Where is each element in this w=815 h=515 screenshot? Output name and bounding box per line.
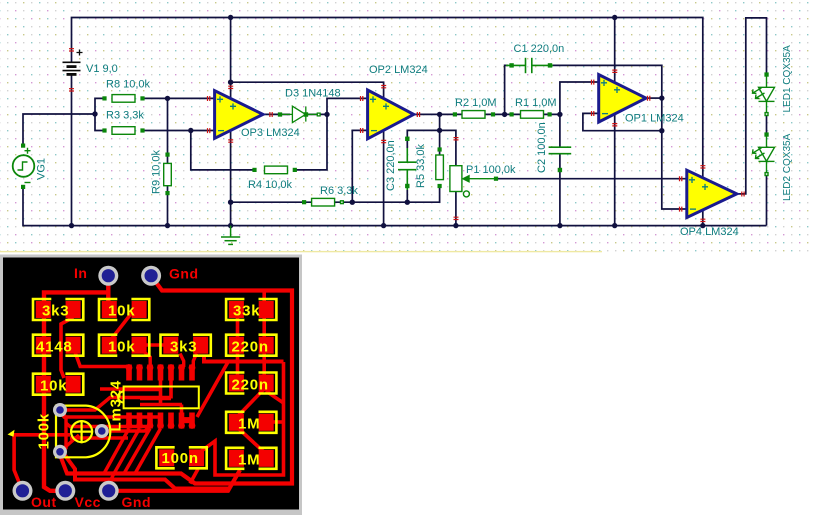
pot via 2 [95,424,109,438]
trace H bridge diagonal to mid rail [197,362,228,417]
junction OP4 V- rail [700,223,705,228]
trace mid rail y362 [204,356,284,362]
source VG1 [13,144,35,188]
wire C1 left riser [505,65,508,114]
svg-text:R9 10,0k: R9 10,0k [151,149,163,194]
trace left column trunk [44,310,65,491]
trace pot via1 to IC [60,398,171,411]
junction diode output node [324,112,329,117]
trace 220n2 right to 1M1 left diagonal [238,388,265,416]
wire OP2 V- to rail [383,130,385,226]
resistor footprint 3k3 [33,299,83,320]
wire OP1 minus feedback loop [583,113,662,130]
junction R1 R2 C1 [502,112,507,117]
svg-text:+: + [601,76,608,90]
P1 pin marks [454,138,459,220]
junction input node [92,111,97,116]
wire OP1 output [646,97,662,99]
svg-text:3k3: 3k3 [170,339,197,356]
trace 100n right to 1M2 area diagonal [190,469,198,484]
wire top supply rail [72,18,703,181]
junction OP2 output [437,112,442,117]
resistor footprint 10k top [99,299,149,320]
wire node to R8 [95,98,105,114]
op-amp OP4 [687,170,737,217]
IC LM324 horizontal weave [125,380,183,418]
wire node to R3 [95,114,105,131]
diode D3 1N4148 [278,106,320,122]
capacitor C3 [398,137,416,190]
svg-text:OP1 LM324: OP1 LM324 [625,113,684,125]
svg-text:−: − [218,124,225,138]
svg-text:10k: 10k [40,378,67,395]
trace 33k to 220n right link [262,312,266,340]
trace 220n1 to 220n2 right link [262,350,266,378]
trace pot row y438 [70,436,128,439]
wire OP2 output to R2 [414,113,463,115]
via Vcc [55,481,75,501]
trace via1 to via3 link [62,412,66,453]
via Out [13,481,33,501]
junction OP2 V- rail [381,223,386,228]
svg-text:R3 3,3k: R3 3,3k [106,110,144,122]
wire LED2 cathode to ground rail [766,175,768,226]
trace 3k3 mid left to IC pad6 [180,354,184,368]
trace 220n2 right pad to ring diagonal [266,391,284,403]
resistor footprint 33k [226,299,276,320]
trace crosshair to via3 [63,435,79,449]
trace 10k mid right to IC pad3 [143,351,150,367]
resistor R4 [253,166,296,174]
PCB frame [0,255,302,515]
resistor footprint 1M bottom [226,448,276,469]
trace bottom ground double line [60,455,181,474]
svg-text:10k: 10k [108,303,135,320]
ground [221,226,240,245]
svg-text:−: − [690,202,697,216]
junction C3 bottom [405,200,410,205]
trace In to 3k3 left pad [44,292,108,304]
svg-text:+: + [217,93,224,107]
svg-text:Out: Out [31,494,57,510]
wire OP3 output to diode [263,113,290,115]
trace 10k1 right to 10k2 left diagonal [106,310,134,346]
trace 1M1 left to 1M2 right diagonal [238,428,265,453]
op-amp OP3 [215,91,263,139]
trace IC pad diagonal 2 [109,429,140,485]
wire P1 bottom to rail [455,192,457,226]
trace 33k right stub [262,291,266,307]
svg-text:3k3: 3k3 [42,303,69,320]
wire R1 right to OP1 node [544,113,560,115]
trace bottom second line [64,454,230,489]
IC H bridge [182,417,193,423]
trace 3k3 mid right to IC pad7 [193,354,196,368]
svg-text:1M: 1M [238,452,260,469]
wire diode to junction and OP2 plus [305,98,368,114]
trace 4148 right diagonal to IC [75,352,130,370]
svg-text:100k: 100k [36,413,53,450]
svg-text:C1 220,0n: C1 220,0n [514,43,565,55]
svg-text:33k: 33k [233,303,260,320]
OP1 pin marks [592,70,650,126]
resistor footprint 3k3 mid [161,335,211,356]
svg-text:Vcc: Vcc [75,494,101,510]
wire C1 right to OP1 output column [552,65,687,209]
via Gnd top [141,266,161,286]
wire C2 top lead [559,114,561,147]
resistor R1 [510,111,551,119]
svg-text:4148: 4148 [36,339,73,356]
capacitor C1 [506,58,553,73]
junction R1 OP1 C2 [557,112,562,117]
junction R9 bottom [165,223,170,228]
trace IC row y389 [100,387,162,391]
resistor footprint 10k bottom [33,374,83,395]
trace IC pad diagonals to bottom [104,429,129,474]
svg-text:R6 3,3k: R6 3,3k [320,185,358,197]
svg-text:220n: 220n [232,339,269,356]
junction OP1 V- rail [612,223,617,228]
wire R3 to OP3 minus input [143,130,215,132]
svg-text:+: + [370,93,377,107]
svg-text:−: − [602,107,609,121]
trace 220n1 to 220n2 left link [236,350,240,378]
trace Gnd via to top rail [67,276,292,484]
resistor R3 [103,127,144,135]
OP4 pin marks [680,166,745,222]
junction OP1 output [659,95,664,100]
junction OP1 feedback [659,128,664,133]
resistor footprint 1M top [226,412,276,433]
svg-text:VG1: VG1 [36,158,48,180]
svg-text:Gnd: Gnd [169,266,199,282]
schematic background grid [0,0,815,257]
LED LED2 [753,133,775,175]
wire R9 top [167,98,169,163]
junction P1 bottom rail [453,223,458,228]
capacitor footprint 100n [156,447,206,468]
wire OP1 plus input riser [560,82,599,114]
junction OP3 V+ rail [228,15,233,20]
wire OP1 V- [614,114,616,226]
potentiometer footprint P1 [56,406,110,458]
wire battery bottom to ground rail [71,73,73,226]
junction OP3 V- rail [228,223,233,228]
junction R6 ground tap [228,200,233,205]
svg-text:1M: 1M [238,416,260,433]
trace pot to left edge [14,435,70,491]
resistor footprint 10k mid [99,335,149,356]
capacitor C2 [549,147,572,171]
OP3 pin marks [208,86,273,142]
trace In via trunk [106,276,110,304]
potentiometer P1 [450,166,498,197]
pale yellow separator line [0,251,602,252]
wire OP3 V- to rail [230,129,232,226]
svg-text:+: + [230,100,237,114]
trace IC pad diagonal 4 [135,429,161,474]
via Gnd bottom [99,481,119,501]
svg-text:R1 1,0M: R1 1,0M [515,97,557,109]
wire OP1 V+ [614,18,616,85]
IC LM324 pads top row [126,364,196,380]
wire node A horizontal [335,186,440,202]
junction node A minus [350,200,355,205]
LED LED1 [753,73,775,115]
svg-text:R5 33,0k: R5 33,0k [415,143,427,188]
svg-text:OP4 LM324: OP4 LM324 [680,226,739,238]
IC LM324 outline [118,387,199,409]
wire OP2 minus feedback [352,130,367,202]
capacitor footprint 220n top [226,335,276,356]
wire bottom ground rail [23,185,767,226]
svg-text:−: − [371,124,378,138]
trace pot via2 to IC [102,424,152,431]
resistor R2 [454,111,495,119]
wire LED1 cathode to LED2 anode [766,115,768,134]
pot wiper silk arrow [8,430,15,437]
pot via 3 [53,445,67,459]
trace 33k to 220n left link [236,312,240,340]
wire R2 to R1 [484,113,521,115]
resistor R5 [436,148,444,187]
trace IC pad diagonal 3 [124,429,150,474]
svg-text:R4 10,0k: R4 10,0k [248,179,293,191]
svg-text:D3 1N4148: D3 1N4148 [285,88,341,100]
trace pot row y426 [66,423,150,427]
wire P1 wiper to OP4 plus input [496,178,687,180]
resistor R9 [164,153,172,194]
wire VG1 top to input node [23,114,95,147]
wire C2 bottom lead [559,154,561,226]
pot via 1 [53,403,67,417]
wire C3 bottom lead [406,190,408,202]
wire OP2 output node down [439,114,441,130]
svg-text:10k: 10k [108,339,135,356]
wire node B horizontal C3 R5 P1 [407,130,456,165]
svg-text:OP3 LM324: OP3 LM324 [241,127,300,139]
wire OP2 V+ branch [231,82,384,100]
svg-text:R8 10,0k: R8 10,0k [106,79,151,91]
junction battery bottom [69,223,74,228]
PCB board background [3,258,299,510]
svg-text:Gnd: Gnd [122,494,152,510]
diode footprint 4148 [33,335,83,356]
battery V1 [63,50,83,75]
trace Gnd via to 100n [109,470,240,491]
wire R9 bottom [167,186,169,226]
op-amp OP1 [599,75,646,122]
PCB layout image [0,255,302,515]
svg-text:+: + [383,100,390,114]
svg-text:220n: 220n [232,377,269,394]
junction C2 bottom rail [557,223,562,228]
wire R6 left to OP3 ground column [231,201,312,203]
wire OP3 feedback to R4 [191,131,255,170]
svg-text:R2 1,0M: R2 1,0M [455,97,497,109]
svg-text:OP2 LM324: OP2 LM324 [369,64,428,76]
trace 1M1 right stub [270,420,284,424]
svg-text:V1 9,0: V1 9,0 [86,63,118,75]
trace 10k2 right to 3k3 mid [136,343,166,347]
svg-text:100n: 100n [162,450,199,467]
op-amp OP2 [368,90,414,139]
svg-text:+: + [689,173,696,187]
svg-text:+: + [614,83,621,97]
wire OP3 V+ from rail [230,18,232,101]
wire R5 top lead [439,130,441,155]
trace 3k3 right to 10k3 right [61,310,72,378]
junction node B [437,128,442,133]
wire OP4 V- to rail [702,210,704,226]
via In [98,266,118,286]
svg-text:LED1 CQX35A: LED1 CQX35A [782,45,793,113]
OP2 pin marks [361,86,420,143]
svg-text:In: In [74,265,87,281]
svg-text:C3 220,0n: C3 220,0n [385,140,397,191]
IC LM324 pads bottom row [126,413,196,429]
svg-text:P1 100,0k: P1 100,0k [466,164,516,176]
wire R8 to OP3 plus input [143,97,215,99]
svg-text:LED2 CQX35A: LED2 CQX35A [782,133,793,201]
svg-text:+: + [702,180,709,194]
junction OP3 supply split [228,80,233,85]
junction R8 OP3 plus [165,96,170,101]
junction R3 OP3 minus [188,128,193,133]
wire R4 right to OP3 output node [295,114,327,169]
capacitor footprint 220n bottom [226,373,276,394]
wire OP4 output riser to LED chain [737,18,767,194]
junction OP1 V+ rail [612,15,617,20]
resistor R6 [303,198,344,206]
trace IC row y415 [60,411,158,417]
battery pin marks [69,49,74,91]
resistor R8 [103,95,144,103]
svg-text:C2 100,0n: C2 100,0n [536,122,548,173]
